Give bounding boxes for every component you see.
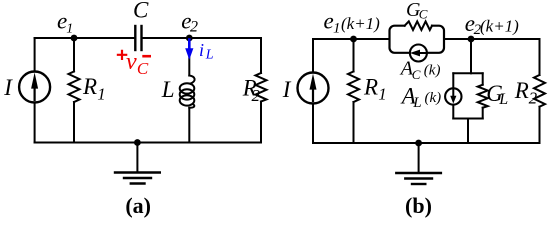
inductor L coil [189, 76, 194, 84]
wire: (a) top rail left segment e1 to capacitor [35, 37, 136, 39]
current arrow iL (blue) [188, 40, 191, 51]
svg-text:2: 2 [529, 89, 538, 108]
capacitor C plates [134, 26, 136, 50]
current source AL(k) circle [445, 88, 461, 104]
svg-text:2: 2 [190, 19, 198, 36]
svg-text:i: i [199, 40, 204, 60]
wire: (b) left vertical lower [312, 104, 314, 144]
current source I (a) [19, 72, 50, 103]
wire: R1 (b) bottom lead [353, 102, 355, 143]
svg-text:C: C [412, 67, 421, 82]
wire: R2 (b) top lead [539, 39, 541, 75]
svg-text:L: L [498, 91, 508, 108]
resistor GL zigzag [478, 85, 488, 108]
current source I (b) arrow [312, 87, 314, 101]
wire: (b) ground stem [418, 143, 420, 173]
svg-text:C: C [137, 59, 149, 78]
svg-text:C: C [133, 0, 149, 22]
wire: (a) top rail capacitor to R2 [142, 37, 262, 39]
wire: (b) left vertical upper [312, 39, 314, 72]
wire: (a) left vertical upper [34, 38, 36, 71]
svg-text:1: 1 [66, 21, 73, 36]
resistor GC zigzag on box top edge [405, 21, 432, 30]
wire: (a) left vertical lower [34, 103, 36, 143]
node e1(k+1) junction dot [350, 36, 357, 43]
wire: GL bottom lead [482, 108, 484, 119]
wire: AL/GL box bottom bar [453, 118, 482, 120]
wire: R1 (b) top lead [353, 39, 355, 72]
wire: (a) bottom rail [35, 142, 261, 144]
current source AL(k) arrow [452, 90, 454, 98]
svg-text:(a): (a) [125, 193, 151, 218]
current source AC(k) circle [410, 45, 427, 62]
svg-text:(b): (b) [405, 193, 432, 218]
wire: inductor L bottom lead [188, 108, 190, 143]
node e1 junction dot [71, 35, 78, 42]
svg-text:L: L [412, 95, 421, 111]
svg-text:I: I [282, 77, 292, 102]
wire: AL left vertical upper [452, 73, 454, 88]
svg-text:(k): (k) [424, 63, 441, 79]
wire: e2 node down stem [470, 39, 472, 73]
wire: R1 (a) bottom lead [73, 102, 75, 143]
svg-text:R: R [82, 74, 97, 99]
current source I (a) arrow [33, 86, 35, 100]
svg-text:R: R [514, 78, 529, 103]
resistor R2 (a) zigzag [256, 73, 267, 102]
current source I (b) [298, 73, 329, 104]
wire: inductor L top lead [188, 38, 190, 76]
svg-text:L: L [205, 47, 214, 62]
svg-text:(k+1): (k+1) [341, 14, 380, 33]
ground (b) [396, 172, 441, 174]
node: (a) ground junction dot [134, 139, 141, 146]
wire: AL left vertical lower [452, 105, 454, 119]
svg-text:1: 1 [97, 84, 106, 103]
svg-text:R: R [363, 74, 378, 99]
wire: R2 (a) top lead [260, 38, 262, 73]
svg-text:(k): (k) [425, 90, 442, 106]
svg-text:C: C [419, 6, 428, 21]
current source AC(k) arrow [419, 52, 426, 54]
svg-text:1: 1 [378, 85, 387, 104]
resistor R1 (a) zigzag [69, 72, 80, 103]
svg-text:1: 1 [333, 20, 341, 36]
resistor R1 (b) zigzag [348, 72, 359, 103]
wire: R1 (a) top lead [73, 38, 75, 72]
node e2(k+1) junction dot [468, 36, 475, 43]
wire: GL top lead [482, 73, 484, 84]
svg-text:2: 2 [252, 86, 261, 105]
svg-text:I: I [3, 75, 13, 100]
wire: (a) ground stem [136, 143, 138, 173]
wire: AL/GL bottom stem [467, 119, 469, 144]
svg-text:v: v [126, 49, 137, 75]
wire: (b) top rail box to R2 [444, 38, 540, 40]
node: (b) ground junction dot [415, 140, 422, 147]
svg-text:(k+1): (k+1) [480, 17, 519, 36]
wire: AL/GL box top bar [453, 72, 482, 74]
ground (a) [115, 171, 160, 173]
resistor R2 (b) zigzag [534, 75, 545, 107]
wire: (b) bottom rail [313, 142, 540, 144]
wire: R2 (a) bottom lead [260, 102, 262, 143]
label +vC- (red) [117, 50, 128, 60]
svg-text:L: L [161, 77, 175, 102]
wire: (b) top rail e1 to box [313, 38, 390, 40]
parallel box GC/AC rounded rect (gap on top edge for zigzag) [390, 26, 445, 53]
wire: R2 (b) bottom lead [539, 107, 541, 143]
node e2 junction dot [186, 35, 193, 42]
